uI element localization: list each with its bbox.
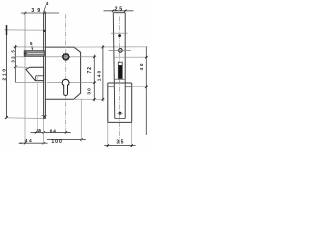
dimension line 32.5 xyxy=(14,45,16,83)
svg-text:72: 72 xyxy=(87,67,93,74)
strike box bottom xyxy=(108,121,132,123)
keyhole (euro cylinder) xyxy=(62,79,69,86)
ext x37.3 xyxy=(36,76,38,133)
svg-text:35: 35 xyxy=(116,140,123,146)
keyhole horizontal centerline xyxy=(47,82,96,84)
svg-text:44: 44 xyxy=(25,138,32,144)
svg-text:4: 4 xyxy=(46,1,49,6)
ring hole centerline xyxy=(109,49,131,51)
faceplate top screw hole xyxy=(43,30,45,32)
faceplate bottom screw hole xyxy=(44,116,46,118)
dim 40 far right xyxy=(145,47,147,135)
line across faceplate y79 xyxy=(114,78,125,80)
dim 35 xyxy=(104,145,135,147)
extension deadbolt bottom (y=82.4) xyxy=(15,81,44,83)
svg-text:5: 5 xyxy=(30,41,33,46)
svg-text:32.5: 32.5 xyxy=(10,50,15,63)
dim line 140 xyxy=(102,45,104,101)
hub (handle follower) xyxy=(63,54,69,60)
top screw hole xyxy=(118,34,121,37)
deadbolt inner corner lines xyxy=(36,75,44,77)
side view: dim 25 xyxy=(104,10,134,12)
strike box top xyxy=(108,82,132,84)
latch opening slot xyxy=(118,62,122,79)
svg-text:30: 30 xyxy=(87,88,93,95)
hub centerline tick at left dim xyxy=(13,56,25,58)
hub horizontal centerline xyxy=(46,56,96,58)
flange lines xyxy=(108,86,115,88)
latch dark bolt xyxy=(119,65,122,79)
ext box sides down xyxy=(107,122,109,147)
dimension line 210 (far left vertical) xyxy=(6,28,8,118)
latch bolt front view xyxy=(24,51,44,56)
svg-text:64: 64 xyxy=(50,129,56,134)
extension faceplate bottom to left xyxy=(6,117,43,120)
screw tick line xyxy=(111,32,128,34)
faceplate side bottom edge xyxy=(115,118,125,120)
dim line 72/30 xyxy=(93,55,95,102)
bottom screw hole xyxy=(119,112,122,115)
hub vertical centerline xyxy=(65,14,67,133)
extension deadbolt top (y=67) xyxy=(15,66,28,69)
ext case top to right and far right xyxy=(74,46,148,48)
svg-text:210: 210 xyxy=(1,69,7,81)
ext faceplate to bottom dims xyxy=(43,119,45,143)
svg-text:40: 40 xyxy=(139,63,145,70)
svg-text:25: 25 xyxy=(115,7,123,13)
dim 100 line xyxy=(47,138,86,140)
extension line from latch tip (vertical) xyxy=(24,13,26,50)
faceplate front view (narrow strip) xyxy=(43,13,45,119)
extension case top to left xyxy=(13,46,45,48)
ext case bottom to right xyxy=(74,98,105,100)
bottom dim row2 44 line xyxy=(19,142,48,144)
ext case right edge down xyxy=(80,99,82,141)
bottom dim row1 line xyxy=(31,131,71,133)
extension line y=30 xyxy=(4,29,44,31)
top dimension line 39 xyxy=(21,12,59,14)
lock case outline xyxy=(45,47,80,99)
side view centerline xyxy=(118,17,120,145)
svg-text:100: 100 xyxy=(51,139,62,145)
deadbolt front view (beveled bolt head) xyxy=(26,67,44,80)
side view faceplate outline xyxy=(113,13,115,119)
svg-text:140: 140 xyxy=(96,70,102,81)
extension line y57.2 across side faceplate xyxy=(113,56,148,58)
strike box sides xyxy=(107,83,109,122)
side ring hole xyxy=(119,49,123,53)
